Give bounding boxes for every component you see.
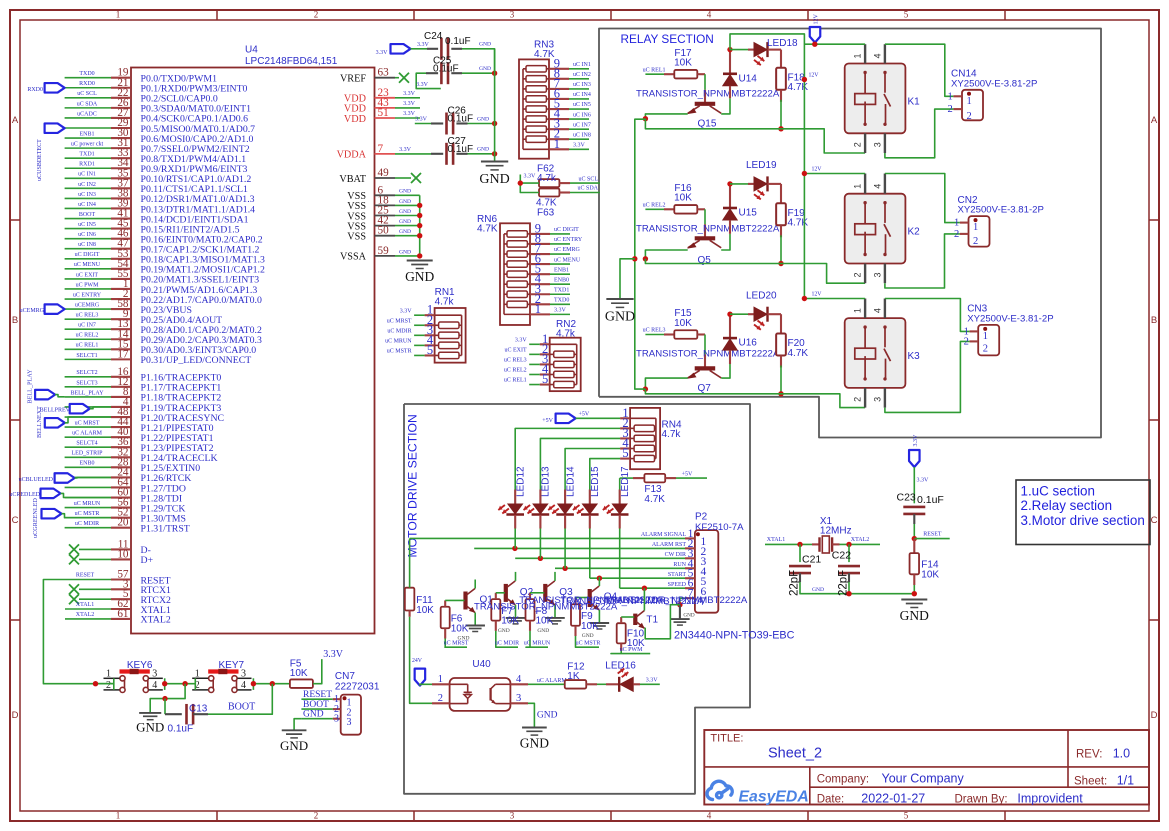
svg-text:uCGREENLED: uCGREENLED — [32, 498, 39, 538]
wire RN4 pin3 to LED13 — [540, 438, 620, 504]
svg-text:C: C — [12, 515, 19, 526]
svg-text:GND: GND — [136, 720, 164, 735]
svg-text:GND: GND — [399, 189, 411, 195]
transistor Q4 TRANSISTOR_NPNMMBT2222A — [588, 589, 592, 607]
svg-text:22pF: 22pF — [789, 570, 801, 596]
svg-text:BELLPREV: BELLPREV — [40, 408, 71, 414]
transistor Q2 TRANSISTOR_NPNMMBT2222A — [504, 584, 508, 602]
U4 pin 50 (VSS) — [375, 235, 396, 237]
CN7 pin 3 (GND) — [333, 718, 341, 720]
wire ground tap — [620, 259, 635, 298]
U4 pin 29 (P0.5/MISO0/MAT0.1/AD0.7) — [111, 127, 131, 129]
LED LED15 — [589, 490, 591, 505]
relay K3 pin 3 — [884, 388, 886, 408]
svg-text:LED15: LED15 — [590, 466, 601, 497]
CN7 pin 1 (RESET) — [333, 698, 341, 700]
transistor Q7 TRANSISTOR_NPNMMBT2222A — [695, 366, 716, 370]
svg-text:uCUSBDETECT: uCUSBDETECT — [37, 139, 43, 181]
svg-text:2: 2 — [106, 680, 111, 691]
svg-text:+5V: +5V — [579, 412, 590, 418]
svg-text:3.3V: 3.3V — [554, 308, 567, 314]
svg-text:3.Motor drive section: 3.Motor drive section — [1021, 513, 1145, 528]
wire collector Q3 — [554, 572, 556, 581]
svg-text:BOOT: BOOT — [228, 702, 255, 713]
junction — [912, 536, 917, 541]
RN4 pin 2 — [620, 427, 630, 429]
wire F16 to base of Q5 — [697, 208, 705, 210]
wire F13 to LED17 — [619, 478, 621, 504]
power flag 3.3V (C24) — [391, 44, 411, 54]
wire SPEED row — [620, 587, 685, 589]
svg-text:2: 2 — [853, 272, 863, 277]
wire K1 pin 4 to CN14 pin 1 — [885, 44, 954, 96]
U4 pin 43 (VDD) — [375, 107, 396, 109]
ground symbol (relay section) — [606, 298, 633, 300]
svg-text:12V: 12V — [812, 167, 823, 173]
P2 pin 4 — [685, 567, 695, 569]
U4 pin 46 (P0.16/EINT0/MAT0.2/CAP0.2) — [111, 238, 131, 240]
svg-text:3.3V: 3.3V — [913, 434, 919, 447]
svg-text:GND: GND — [537, 711, 558, 721]
RN6 pin 1 (3.3V) — [530, 313, 550, 315]
svg-text:uC IN3: uC IN3 — [573, 82, 591, 88]
connector CN2 XY2500V-E-3.81-2P — [969, 216, 990, 247]
ground symbol (Q2) — [506, 617, 526, 619]
svg-text:BELL_PLAY: BELL_PLAY — [70, 390, 104, 396]
relay K1 pin 2 — [864, 133, 866, 153]
svg-text:12MHz: 12MHz — [820, 526, 852, 537]
U4 pin 30 (P0.6/MOSI0/CAP0.2/AD1.0) — [111, 137, 131, 139]
svg-text:uC MSTR: uC MSTR — [576, 641, 601, 647]
junction — [93, 681, 98, 686]
wire emitter Q1 to ground — [474, 613, 476, 626]
svg-text:ENB0: ENB0 — [80, 461, 95, 467]
svg-text:3.3V: 3.3V — [917, 478, 930, 484]
junction — [643, 256, 648, 261]
resistor F14 10K — [913, 539, 915, 554]
svg-text:4: 4 — [873, 308, 883, 313]
svg-text:LED18: LED18 — [767, 38, 798, 49]
resistor F18 4.7K — [776, 68, 786, 90]
svg-text:CW DIR: CW DIR — [665, 552, 686, 558]
svg-text:uC SDA: uC SDA — [77, 101, 98, 107]
svg-text:A: A — [12, 115, 19, 126]
svg-text:XY2500V-E-3.81-2P: XY2500V-E-3.81-2P — [967, 313, 1053, 324]
U4 pin 38 (P0.12/DSR1/MAT1.0/AD1.3) — [111, 197, 131, 199]
RN4 pin 3 — [620, 437, 630, 439]
wire START row — [590, 577, 685, 579]
svg-text:GND: GND — [582, 633, 594, 639]
CN14 pin 1 — [953, 95, 962, 97]
ground symbol for VSS bus — [407, 260, 433, 262]
ground symbol (decoupling caps) — [481, 161, 508, 163]
junction — [562, 566, 567, 571]
svg-text:uC IN1: uC IN1 — [78, 172, 96, 178]
relay K1 pin 4 — [884, 44, 886, 63]
svg-text:uC IN2: uC IN2 — [78, 182, 96, 188]
svg-text:SELCT3: SELCT3 — [76, 380, 97, 386]
no-connect X on D+ — [69, 554, 79, 564]
RN3 pin 9 (uC IN1) — [549, 68, 569, 70]
svg-text:4.7k: 4.7k — [435, 297, 455, 308]
svg-text:RXD1: RXD1 — [79, 162, 95, 168]
svg-text:SELCT4: SELCT4 — [76, 441, 97, 447]
svg-text:uC ALARM: uC ALARM — [72, 431, 103, 437]
wire F62 to uC SCL — [559, 182, 570, 184]
svg-text:61: 61 — [117, 608, 128, 620]
svg-text:3: 3 — [516, 693, 521, 704]
svg-text:3: 3 — [873, 142, 883, 147]
svg-text:3.3V: 3.3V — [646, 678, 659, 684]
wire emitter trunk to ground — [644, 118, 646, 121]
wire emitter Q2 to ground — [515, 605, 517, 618]
svg-text:GND: GND — [399, 249, 411, 255]
svg-text:TRANSISTOR_NPNMMBT2222A: TRANSISTOR_NPNMMBT2222A — [636, 349, 780, 360]
junction — [492, 151, 497, 156]
svg-text:C23: C23 — [897, 492, 916, 504]
svg-text:uC IN1: uC IN1 — [573, 62, 591, 68]
junction — [642, 586, 647, 591]
svg-text:4.7k: 4.7k — [537, 173, 557, 184]
wire emitter of Q15 to rail — [645, 114, 687, 119]
wire collector of Q5 up to diode — [721, 234, 730, 250]
U4 pin 19 (P0.0/TXD0/PWM1) — [111, 77, 131, 79]
wire LED15 cathode — [589, 515, 591, 529]
net flag RXD0 — [45, 83, 65, 93]
power flag 24V — [415, 669, 426, 686]
wire RUN row — [555, 567, 685, 569]
svg-text:1/1: 1/1 — [1117, 774, 1134, 788]
junction — [727, 181, 732, 186]
svg-text:1: 1 — [853, 53, 863, 58]
svg-text:59: 59 — [378, 245, 390, 257]
RN6 pin 4 (ENB0) — [530, 283, 550, 285]
svg-text:uC ALARM: uC ALARM — [537, 678, 568, 684]
svg-text:2: 2 — [947, 104, 952, 115]
power flag 12V at top — [810, 27, 821, 43]
wire VSS pin to ground bus — [395, 204, 420, 206]
connector CN3 XY2500V-E-3.81-2P — [978, 325, 999, 356]
relay K3 pin 2 — [864, 388, 866, 408]
relay K2 — [845, 194, 906, 264]
U4 pin 1 (P0.21/PWM5/AD1.6/CAP1.3) — [111, 288, 131, 290]
svg-text:0.1uF: 0.1uF — [917, 494, 944, 506]
svg-text:3.3V: 3.3V — [403, 91, 416, 97]
capacitor C23 0.1uF — [903, 506, 925, 509]
svg-text:VDD: VDD — [344, 114, 366, 125]
LED LED20 — [730, 313, 748, 315]
RN6 pin 8 (uC ENTRY) — [530, 243, 550, 245]
svg-text:TITLE:: TITLE: — [710, 733, 743, 745]
wire emitter Q4 to ground — [598, 610, 600, 623]
svg-text:B: B — [12, 315, 18, 326]
wire F11 top to ALARM SIGNAL — [409, 538, 411, 587]
svg-text:uC ENTRY: uC ENTRY — [73, 292, 102, 298]
svg-text:TXD0: TXD0 — [554, 298, 569, 304]
relay K2 pin 3 — [884, 264, 886, 284]
wire 3.3V to F62/F63 — [520, 175, 539, 193]
svg-text:LED19: LED19 — [746, 160, 777, 171]
svg-text:ENB0: ENB0 — [554, 277, 569, 283]
wire GND bus down — [494, 49, 496, 161]
svg-text:START: START — [668, 572, 686, 578]
U4 pin 62 (XTAL1) — [111, 608, 131, 610]
wire base Q4 — [576, 597, 589, 599]
svg-text:1: 1 — [983, 331, 988, 342]
svg-text:uCEMRG: uCEMRG — [75, 302, 100, 308]
svg-text:uC power ckt: uC power ckt — [71, 142, 104, 148]
U4 pin 44 (P1.21/PIPESTAT0) — [111, 426, 131, 428]
svg-text:GND: GND — [498, 628, 510, 634]
wire between KEY6 and KEY7 — [164, 678, 166, 690]
svg-text:RXD0: RXD0 — [27, 87, 43, 93]
svg-text:BELL_PLAY: BELL_PLAY — [27, 369, 34, 404]
svg-text:49: 49 — [378, 167, 390, 179]
svg-text:uC IN3: uC IN3 — [78, 192, 96, 198]
junction — [417, 223, 422, 228]
capacitor C24 0.1uF — [411, 48, 428, 50]
capacitor C21 22pF — [799, 544, 801, 562]
wire K3 pin 4 to CN3 pin 1 — [885, 299, 970, 332]
U4 pin 13 (P0.28/AD0.1/CAP0.2/MAT0.2) — [111, 328, 131, 330]
net flag BELL_PLAY — [35, 390, 55, 400]
U4 pin 53 (P0.18/CAP1.3/MISO1/MAT1.3) — [111, 258, 131, 260]
U4 pin 60 (P1.28/TDI) — [111, 496, 131, 498]
svg-text:VDDA: VDDA — [337, 150, 367, 161]
U4 pin 12 (P1.17/TRACEPKT1) — [111, 386, 131, 388]
svg-text:uC DIGIT: uC DIGIT — [75, 252, 100, 258]
svg-text:BELLNEXT: BELLNEXT — [36, 406, 43, 438]
wire 24V flag to U40 pin1 — [420, 684, 432, 685]
svg-text:2: 2 — [314, 810, 319, 820]
svg-text:22272031: 22272031 — [335, 682, 380, 693]
svg-text:LED17: LED17 — [620, 466, 631, 497]
svg-text:24V: 24V — [412, 658, 423, 664]
junction — [632, 256, 637, 261]
svg-text:0.1uF: 0.1uF — [433, 64, 459, 75]
svg-text:D: D — [1151, 710, 1158, 721]
svg-text:63: 63 — [378, 67, 390, 79]
wire LED12 cathode — [514, 515, 516, 529]
U4 pin 41 (P0.14/DCD1/EINT1/SDA1) — [111, 217, 131, 219]
no-connect X on VREF — [395, 77, 399, 79]
svg-text:Sheet:: Sheet: — [1074, 776, 1107, 788]
svg-text:uC MSTR: uC MSTR — [387, 349, 412, 355]
svg-text:GND: GND — [520, 736, 549, 751]
svg-text:3.3V: 3.3V — [573, 142, 586, 148]
U4 pin 63 (VREF) — [375, 77, 396, 79]
resistor network RN1 4.7k — [435, 308, 466, 363]
resistor F15 10K — [645, 334, 664, 336]
wire ALARM RST row — [474, 547, 685, 549]
capacitor C13 0.1uF — [164, 699, 166, 715]
resistor F5 10K — [290, 679, 313, 688]
svg-text:GND: GND — [399, 199, 411, 205]
svg-text:3.3V: 3.3V — [403, 111, 416, 117]
wire F20 to rail — [780, 356, 782, 368]
U4 pin 35 (P0.10/RTS1/CAP1.0/AD1.2) — [111, 177, 131, 179]
U4 pin 11 (D-) — [111, 548, 131, 550]
wire 3.3V stub on VDD pin 23 — [395, 97, 420, 99]
CN3 pin 2 — [970, 340, 979, 342]
svg-text:KF2510-7A: KF2510-7A — [695, 522, 744, 533]
svg-text:1: 1 — [554, 137, 560, 151]
svg-text:GND: GND — [280, 738, 308, 753]
svg-text:GND: GND — [479, 172, 509, 187]
svg-text:LED14: LED14 — [565, 466, 576, 497]
svg-text:P2: P2 — [695, 512, 708, 523]
wire emitter rail — [645, 119, 865, 153]
U4 pin 47 (P0.17/CAP1.2/SCK1/MAT1.2) — [111, 248, 131, 250]
svg-text:10K: 10K — [674, 193, 692, 204]
capacitor C27 0.1uF — [431, 153, 443, 155]
svg-text:1K: 1K — [567, 671, 580, 682]
wire CW DIR row — [515, 557, 685, 559]
U4 pin 51 (VDD) — [375, 117, 396, 119]
svg-text:10K: 10K — [416, 605, 434, 616]
svg-text:GND: GND — [479, 66, 491, 72]
svg-text:20: 20 — [117, 517, 129, 529]
svg-text:1: 1 — [947, 91, 952, 102]
svg-text:3.3V: 3.3V — [399, 147, 412, 153]
RN2 pin 3 (uC REL3) — [540, 363, 550, 365]
svg-text:1: 1 — [853, 308, 863, 313]
U4 pin 8 (P1.18/TRACEPKT2) — [111, 396, 131, 398]
wire ALARM SIGNAL row — [410, 537, 685, 539]
U4 pin 25 (VSS) — [375, 215, 396, 217]
svg-text:GND: GND — [303, 710, 324, 720]
relay K1 pin 3 — [884, 133, 886, 153]
resistor F10 10K — [617, 623, 626, 643]
svg-text:uC MRUN: uC MRUN — [524, 641, 551, 647]
svg-text:3: 3 — [152, 668, 157, 679]
svg-text:uC IN5: uC IN5 — [573, 102, 591, 108]
svg-text:GND: GND — [405, 269, 434, 284]
junction — [270, 681, 275, 686]
svg-text:GND: GND — [479, 42, 491, 48]
resistor F20 4.7K — [776, 334, 786, 356]
svg-text:3.3V: 3.3V — [524, 174, 537, 180]
svg-text:4.7K: 4.7K — [788, 348, 809, 359]
U40 pin 4 — [510, 683, 528, 685]
svg-text:10K: 10K — [501, 616, 519, 627]
wire F18 to rail — [780, 90, 782, 102]
svg-text:4: 4 — [241, 680, 246, 691]
wire right of KEY7 — [252, 678, 254, 690]
svg-text:TXD1: TXD1 — [79, 152, 94, 158]
svg-text:RXD0: RXD0 — [79, 81, 95, 87]
svg-text:XY2500V-E-3.81-2P: XY2500V-E-3.81-2P — [951, 78, 1037, 89]
U4 pin 34 (P0.9/RXD1/PWM6/EINT3) — [111, 167, 131, 169]
U4 pin 4 (P1.19/TRACEPKT3) — [111, 406, 131, 408]
svg-text:SPEED: SPEED — [668, 582, 687, 588]
wire K2 pin 4 to CN2 pin 1 — [885, 174, 960, 223]
U4 pin 5 (RTCX2) — [111, 598, 131, 600]
svg-text:TXD1: TXD1 — [554, 287, 569, 293]
U4 pin 37 (P0.11/CTS1/CAP1.1/SCL1) — [111, 187, 131, 189]
wire F11 bottom to U40 pin 2 — [409, 611, 411, 617]
svg-text:uC IN7: uC IN7 — [573, 122, 591, 128]
RN6 pin 5 (ENB1) — [530, 273, 550, 275]
svg-text:T1: T1 — [646, 615, 658, 626]
svg-text:12V: 12V — [809, 73, 820, 79]
svg-text:C: C — [1151, 515, 1158, 526]
svg-text:ENB1: ENB1 — [554, 267, 569, 273]
svg-text:VREF: VREF — [340, 74, 366, 85]
wire +5V to RN4 pin 1 — [576, 417, 621, 419]
svg-text:3.3V: 3.3V — [400, 308, 413, 314]
wire 12V to K1 pin 1 — [804, 43, 865, 45]
CN14 pin 2 — [953, 108, 962, 110]
relay K2 pin 2 — [864, 264, 866, 284]
svg-text:D+: D+ — [141, 555, 154, 566]
svg-text:SELCT2: SELCT2 — [76, 370, 97, 376]
svg-text:1: 1 — [438, 674, 443, 685]
svg-text:1: 1 — [967, 96, 972, 107]
wire LED14 cathode — [564, 515, 566, 529]
resistor F7 10K — [491, 599, 500, 621]
RN1 pin 4 (uC MRUN) — [425, 344, 435, 346]
svg-text:TRANSISTOR_NPNMMBT2222A: TRANSISTOR_NPNMMBT2222A — [636, 224, 780, 235]
U4 pin 57 (RESET) — [111, 578, 131, 580]
svg-text:4.7k: 4.7k — [556, 329, 576, 340]
svg-text:uC IN4: uC IN4 — [573, 92, 591, 98]
junction — [846, 542, 851, 547]
svg-text:XTAL2: XTAL2 — [76, 612, 95, 618]
U4 pin 21 (P0.1/RXD0/PWM3/EINT0) — [111, 87, 131, 89]
svg-text:4.7K: 4.7K — [644, 494, 665, 505]
U4 pin 52 (P1.30/TMS) — [111, 517, 131, 519]
wire K3 pin 3 to CN3 pin 2 — [885, 341, 970, 412]
svg-text:BOOT: BOOT — [79, 212, 96, 218]
svg-text:ALARM SIGNAL: ALARM SIGNAL — [641, 532, 687, 538]
RN6 pin 7 (uC EMRG) — [530, 253, 550, 255]
svg-text:3.3V: 3.3V — [403, 101, 416, 107]
svg-text:0.1uF: 0.1uF — [445, 36, 471, 47]
relay K1 pin 1 — [864, 44, 866, 63]
RN3 pin 7 (uC IN3) — [549, 88, 569, 90]
svg-text:Your Company: Your Company — [882, 772, 965, 786]
svg-text:Q7: Q7 — [698, 383, 712, 394]
svg-text:uC REL3: uC REL3 — [643, 328, 666, 334]
U4 pin 27 (P0.4/SCK0/CAP0.1/AD0.6) — [111, 117, 131, 119]
wire F6 to net stub — [444, 628, 446, 638]
RN3 pin 3 (uC IN7) — [549, 128, 569, 130]
wire 3.3V stub on VDD pin 51 — [395, 117, 420, 119]
svg-text:uC IN2: uC IN2 — [573, 72, 591, 78]
transistor Q3 TRANSISTOR_NPNMMBT2222A — [543, 584, 547, 602]
wire F8 to net stub — [529, 621, 531, 631]
relay section box — [599, 29, 1101, 438]
svg-text:1.0: 1.0 — [1113, 747, 1130, 761]
ground symbol (U40) — [522, 727, 547, 729]
wire 12V rail — [730, 34, 804, 299]
svg-text:Drawn By:: Drawn By: — [955, 793, 1008, 805]
svg-text:5: 5 — [904, 810, 909, 820]
svg-text:uCREDLED: uCREDLED — [9, 492, 40, 498]
wire F15 to base of Q7 — [697, 333, 705, 335]
U4 pin 31 (P0.7/SSEL0/PWM2/EINT2) — [111, 147, 131, 149]
junction — [417, 233, 422, 238]
junction — [912, 591, 917, 596]
svg-text:5: 5 — [427, 343, 433, 357]
svg-text:uC REL3: uC REL3 — [504, 358, 527, 364]
svg-text:3: 3 — [334, 713, 339, 724]
svg-text:Company:: Company: — [817, 774, 869, 786]
relay K3 pin 4 — [884, 299, 886, 319]
no-connect X on RTCX2 — [69, 594, 79, 604]
svg-text:uC MSTR: uC MSTR — [75, 511, 100, 517]
